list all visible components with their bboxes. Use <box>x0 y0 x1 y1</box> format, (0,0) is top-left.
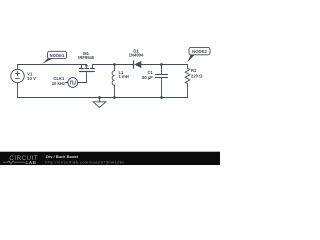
svg-text:NODE1: NODE1 <box>50 53 65 58</box>
svg-text:IRF9540: IRF9540 <box>78 55 95 60</box>
footer bar <box>0 152 220 165</box>
inductor L1 bottom lead <box>114 85 116 97</box>
junction dot ground tap <box>98 96 101 99</box>
node flag NODE1 box <box>48 51 67 58</box>
transistor M1 bulk lead <box>86 64 88 67</box>
resistor R1 leads and zigzag <box>185 65 190 98</box>
logo squiggle line <box>3 161 25 163</box>
transistor M1 bulk arrow <box>85 65 88 68</box>
diode D1 cathode bar <box>133 61 135 68</box>
diode D1 body <box>134 61 141 68</box>
clock CLK1 square wave glyph <box>70 81 75 84</box>
svg-text:1N4004: 1N4004 <box>129 53 144 58</box>
wire top-left from V1 to MOSFET source/bulk <box>18 65 87 70</box>
clock CLK1 left stub <box>66 82 68 84</box>
inductor L1 top lead <box>114 65 116 71</box>
svg-text:LAB: LAB <box>26 160 37 165</box>
junction dot L1 top <box>113 63 116 66</box>
svg-text:1 mH: 1 mH <box>119 74 129 79</box>
capacitor C1 top lead <box>161 65 163 75</box>
node flag NODE1 pointer <box>42 57 52 64</box>
wire bottom rail <box>18 97 188 99</box>
transistor M1 gate plate <box>80 71 95 73</box>
voltage source V1 <box>11 69 24 82</box>
wire V1 bottom lead <box>17 83 19 98</box>
clock source CLK1 circle <box>68 78 78 88</box>
capacitor C1 bottom lead <box>161 78 163 98</box>
svg-text:R1: R1 <box>191 68 197 73</box>
svg-text:Zev / Buck Boost: Zev / Buck Boost <box>46 154 79 159</box>
wire top-right from MOSFET drain to D1 <box>93 65 134 69</box>
svg-text:220 Ω: 220 Ω <box>191 73 203 78</box>
transistor M1 channel bars <box>80 69 95 72</box>
transistor M1 source lead <box>81 65 83 69</box>
node flag NODE2 box <box>189 47 210 54</box>
junction dot L1 bottom <box>113 96 116 99</box>
svg-text:http://circuitlab.com/cua2973m: http://circuitlab.com/cua2973mks28v <box>45 159 124 164</box>
capacitor C1 plates <box>156 74 168 76</box>
transistor M1 gate lead to CLK1 <box>78 72 87 83</box>
node flag NODE2 pointer <box>187 54 194 63</box>
junction dot C1 bottom <box>160 96 163 99</box>
ground triangle <box>93 102 106 108</box>
junction dot C1 top <box>160 63 163 66</box>
ground stub <box>99 98 101 102</box>
wire D1 anode to C1 to R1 <box>141 64 187 66</box>
svg-text:50 µF: 50 µF <box>142 75 153 80</box>
inductor L1 coils <box>112 71 114 85</box>
svg-text:NODE2: NODE2 <box>192 49 207 54</box>
svg-text:10 V: 10 V <box>27 76 36 81</box>
svg-text:10 kHz: 10 kHz <box>52 81 65 86</box>
